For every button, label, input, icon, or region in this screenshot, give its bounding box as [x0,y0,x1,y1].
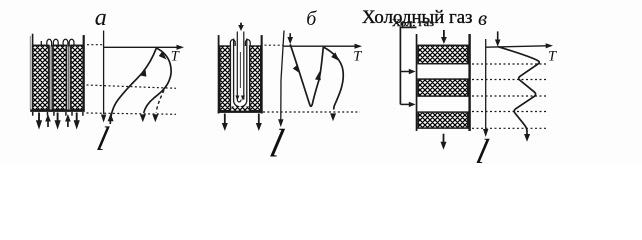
dotted level line в1 [472,63,546,65]
tube stub left [40,41,42,45]
catalyst bed a1 [33,45,49,109]
в cold-shot arrow 1 [400,71,409,73]
dotted level line a top [87,44,103,46]
reactor в left wall [416,34,418,131]
plot в curve end arrowhead (down) [524,134,530,142]
reactor в right wall (thick) [468,34,470,131]
dotted level line б bottom [263,111,360,113]
в cold-shot arrow 2 [400,103,409,105]
svg-text:T: T [353,48,362,64]
svg-text:l: l [473,131,493,163]
dotted level line в2 [472,79,546,81]
plot б T-axis [284,45,356,47]
reactor a outer left wall (faint) [30,36,31,110]
inlet arrow a (up) x=67.9 [67,120,69,127]
б catalyst below U-bend [232,107,250,111]
dotted level line в3 [472,95,546,97]
catalyst bed в2 [418,79,468,96]
reactor a bottom stubs [33,112,83,116]
plot б V-curve (gas down inner tube then up annulus) [290,44,323,106]
svg-text:l: l [93,120,112,157]
plot б V left-branch arrowhead (down-right) [293,65,300,74]
б outlet arrow left (down) [224,114,226,124]
reactor a bottom plate [30,110,85,112]
plot a rising gas curve [110,48,156,124]
plot б entry arrow (down across axis) [289,33,291,37]
tube U-loops over gap 1 [47,39,58,46]
reactor б right wall [261,35,263,113]
outlet arrow a (down) x=39 [38,113,40,121]
б central outer tube [234,39,247,107]
plot в T-axis [486,46,547,47]
catalyst bed б right [250,46,261,111]
plot a solid curve end arrowhead (down) [140,114,146,122]
tube U-loops over gap 2 [63,39,74,46]
б tube loop right [245,40,250,46]
plot a l-axis [103,31,105,115]
heat-exchange tubes in gap 1 [50,45,52,109]
catalyst bed в3 [418,112,468,128]
plot a reacting curve arrowhead (down-right) [159,51,167,59]
plot б l-axis (slightly slanted as in scan) [281,31,284,120]
б thermowell line [239,52,241,88]
inlet arrow a (up) x=48 [47,120,49,127]
б feed arrow (down into central tube) [240,23,242,26]
dotted level line a middle [87,85,177,88]
plot a dashed alternative curve [156,85,166,113]
catalyst bed a3 [71,45,83,109]
reactor б bottom plate [218,111,263,113]
svg-text:T: T [548,49,557,65]
reactor a right wall [83,35,85,110]
svg-text:T: T [171,48,180,64]
dotted level line в4 [472,111,546,113]
svg-text:б: б [306,8,317,30]
б tube loop left [230,40,235,46]
reactor a left wall [32,34,34,111]
outlet arrow a (down) x=76.7 [76,113,78,121]
dotted level line a bottom [87,113,177,114]
в top feed arrow (down) [443,30,445,38]
plot a reacting gas curve (solid) [144,48,171,113]
б central inner tube [237,32,244,102]
plot б reacting curve arrowhead (down-right) [331,52,339,61]
plot a rising curve arrowhead middle (up-right) [141,68,147,77]
plot в entry arrow (down) [497,31,499,39]
plot б reacting gas curve [323,47,343,110]
plot a T-axis [104,46,178,48]
reactor б left wall [218,35,220,113]
heat-exchange tubes in gap 2 [68,45,70,109]
svg-text:в: в [478,6,487,30]
plot б V right-branch arrowhead (up) [315,71,321,80]
б annulus flow arrowheads (down) [235,96,239,101]
catalyst bed в1 [418,45,468,63]
plot в l-axis [485,39,487,130]
svg-text:а: а [95,5,107,31]
plot в zig-zag temperature curve [498,47,540,135]
plot a dashed curve end arrowhead (down) [152,114,158,122]
dotted level line б top [265,44,284,46]
в cold-gas manifold pipe [400,27,416,104]
в bottom outlet arrow (down) [443,134,445,142]
svg-text:l: l [266,121,288,163]
plot б curve end arrowhead (down) [330,113,336,121]
б outlet arrow right (down) [258,114,260,124]
plot a rising curve arrowhead bottom (up) [108,113,114,121]
outlet arrow a (down) x=57.6 [57,113,59,121]
catalyst bed a2 [53,45,66,109]
catalyst bed б left [220,46,231,111]
dotted level line в5 [472,127,546,129]
